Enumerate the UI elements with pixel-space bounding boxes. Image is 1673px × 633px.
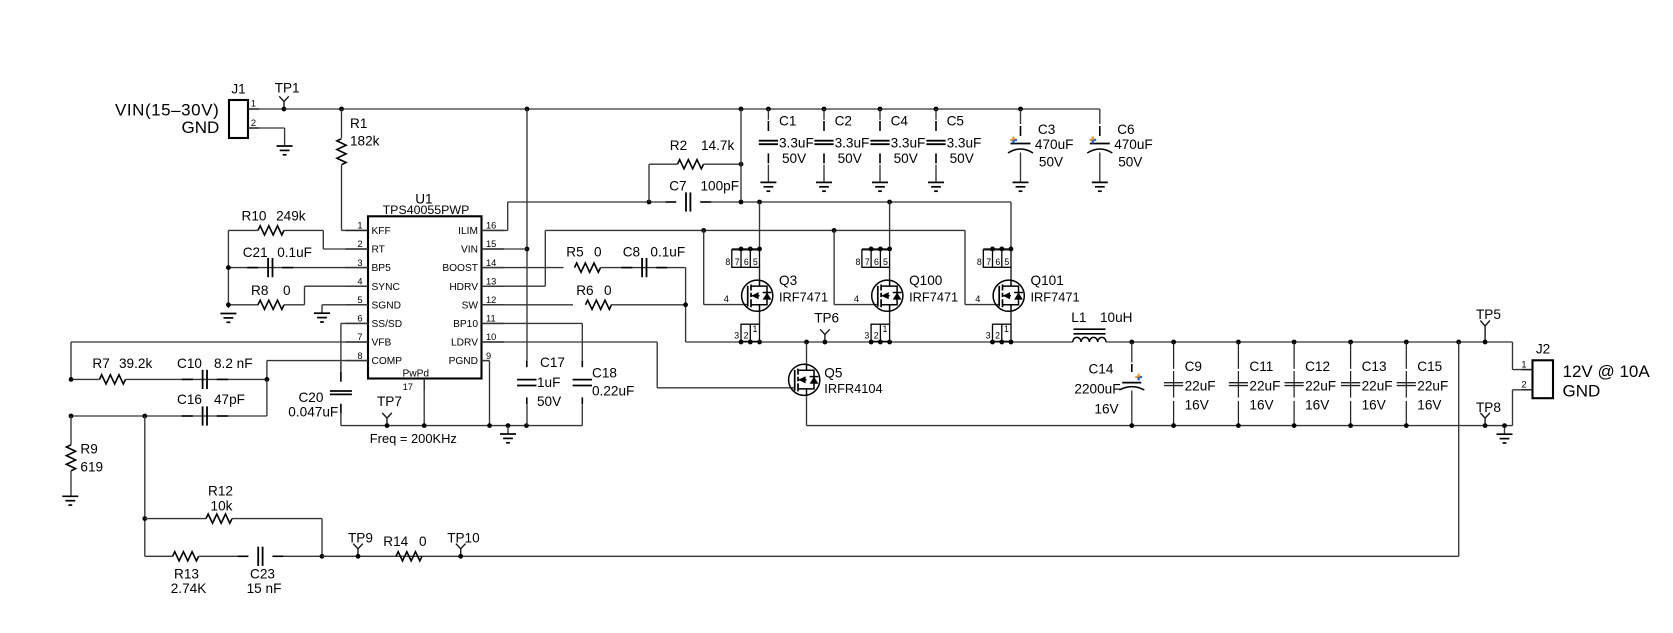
- svg-text:3.3uF: 3.3uF: [779, 136, 814, 151]
- node C7-R2 left: [647, 200, 652, 205]
- svg-text:5: 5: [1004, 257, 1009, 267]
- svg-text:KFF: KFF: [372, 226, 391, 237]
- svg-text:IRF7471: IRF7471: [909, 289, 958, 304]
- svg-text:1: 1: [883, 324, 888, 334]
- svg-text:RT: RT: [372, 245, 385, 256]
- svg-text:50V: 50V: [950, 151, 974, 166]
- svg-text:3.3uF: 3.3uF: [891, 136, 926, 151]
- wire Q3 source down: [759, 312, 761, 325]
- svg-text:C8: C8: [623, 245, 640, 260]
- svg-text:R8: R8: [251, 283, 268, 298]
- svg-text:C17: C17: [540, 355, 565, 370]
- svg-text:BP5: BP5: [372, 263, 392, 274]
- transistor Q5 IRFR4104: [789, 364, 883, 396]
- svg-text:C5: C5: [947, 114, 964, 129]
- wire Q101 drain into symbol: [1010, 267, 1012, 280]
- node VOUT-C12: [1292, 340, 1297, 345]
- svg-text:10uH: 10uH: [1100, 310, 1133, 325]
- svg-text:10: 10: [486, 332, 496, 342]
- svg-text:1uF: 1uF: [537, 375, 560, 390]
- transistor Q100 IRF7471: [854, 273, 958, 311]
- svg-text:1: 1: [251, 99, 256, 109]
- svg-text:C6: C6: [1117, 122, 1134, 137]
- svg-text:17: 17: [403, 382, 413, 392]
- wire drain Q100: [889, 202, 891, 249]
- test point TP9: [348, 530, 373, 558]
- wire COMP pin8: [267, 361, 368, 380]
- node VIN pin15: [482, 247, 530, 252]
- node C11 gnd: [1236, 423, 1241, 428]
- wire SW node: [686, 341, 1073, 343]
- svg-text:16V: 16V: [1417, 398, 1441, 413]
- svg-text:7: 7: [986, 257, 991, 267]
- svg-text:R6: R6: [576, 283, 593, 298]
- svg-text:22uF: 22uF: [1249, 379, 1280, 394]
- svg-text:TP6: TP6: [814, 311, 839, 326]
- svg-text:14: 14: [486, 258, 496, 268]
- wire rail to R2/C7: [740, 109, 742, 202]
- resistor R12: [145, 483, 322, 556]
- node C7-rail vertical: [739, 200, 744, 205]
- svg-text:8: 8: [725, 257, 730, 267]
- svg-text:C20: C20: [298, 390, 323, 405]
- port label GND (input): [182, 118, 220, 137]
- node gate Q100: [832, 228, 837, 233]
- svg-text:R10: R10: [242, 208, 267, 223]
- ground C6: [1092, 182, 1108, 191]
- svg-text:13: 13: [486, 276, 496, 286]
- node VOUT feedback tap: [1456, 340, 1461, 345]
- port label VIN(15-30V): [115, 101, 219, 120]
- wire PGND pin9 down: [482, 361, 490, 426]
- svg-text:100pF: 100pF: [701, 178, 740, 193]
- svg-text:0: 0: [419, 534, 427, 549]
- capacitor C14 (polarized): [1074, 342, 1144, 426]
- svg-text:C1: C1: [779, 114, 796, 129]
- svg-text:Q3: Q3: [779, 273, 797, 288]
- svg-text:0: 0: [594, 245, 602, 260]
- node C13 gnd: [1348, 423, 1353, 428]
- svg-text:182k: 182k: [350, 133, 380, 148]
- capacitor C10: [126, 356, 267, 389]
- svg-text:PGND: PGND: [449, 356, 478, 367]
- resistor R1: [337, 109, 380, 230]
- node gnd stem: [506, 423, 511, 428]
- svg-text:1: 1: [1521, 360, 1526, 370]
- inductor L1: [1071, 310, 1132, 342]
- port label GND (output): [1563, 382, 1601, 401]
- node C16 left: [69, 414, 74, 419]
- svg-text:7: 7: [865, 257, 870, 267]
- node gate Q3: [701, 228, 706, 233]
- svg-text:2: 2: [357, 239, 362, 249]
- svg-text:2: 2: [874, 331, 879, 341]
- svg-text:C16: C16: [177, 392, 202, 407]
- svg-text:SYNC: SYNC: [372, 282, 400, 293]
- resistor R7: [71, 356, 152, 384]
- node R8 left: [226, 302, 231, 307]
- svg-text:TP5: TP5: [1476, 307, 1501, 322]
- svg-text:2.74K: 2.74K: [171, 581, 207, 596]
- wire L1 to output: [1106, 341, 1513, 343]
- capacitor C9: [1164, 342, 1216, 426]
- svg-text:16V: 16V: [1362, 398, 1386, 413]
- svg-text:C3: C3: [1038, 122, 1055, 137]
- capacitor C7: [665, 178, 739, 211]
- svg-text:C2: C2: [835, 114, 852, 129]
- node VOUT-C9: [1171, 340, 1176, 345]
- svg-text:50V: 50V: [782, 151, 806, 166]
- wire gate Q3 drop: [704, 230, 748, 304]
- svg-text:R14: R14: [383, 534, 408, 549]
- node Q5 drain: [804, 340, 809, 345]
- node VFB-R7: [69, 377, 74, 382]
- svg-text:5: 5: [883, 257, 888, 267]
- label Freq = 200KHz: [370, 431, 457, 446]
- wire drain Q3: [759, 202, 761, 249]
- node VOUT-C13: [1348, 340, 1353, 345]
- node VOUT-C14: [1129, 340, 1134, 345]
- wire PwPd pin17: [423, 379, 425, 426]
- wire SS/SD pin6 down: [341, 323, 368, 371]
- node rail-C4: [878, 107, 883, 112]
- wire C7 line right: [711, 201, 1011, 203]
- svg-text:C7: C7: [669, 178, 686, 193]
- svg-text:470uF: 470uF: [1035, 137, 1074, 152]
- svg-text:TP10: TP10: [447, 530, 480, 545]
- svg-text:2: 2: [251, 118, 256, 128]
- wire gate drive line: [545, 229, 965, 231]
- wire SGND pin5: [322, 305, 368, 313]
- svg-text:R12: R12: [208, 483, 233, 498]
- resistor R10: [228, 208, 368, 249]
- svg-text:7: 7: [735, 257, 740, 267]
- svg-text:1: 1: [357, 221, 362, 231]
- svg-text:22uF: 22uF: [1417, 379, 1448, 394]
- svg-text:TP7: TP7: [377, 394, 402, 409]
- wire gate Q101 drop: [965, 230, 1000, 304]
- svg-text:C23: C23: [250, 566, 275, 581]
- svg-text:IRF7471: IRF7471: [1031, 289, 1080, 304]
- svg-text:Q5: Q5: [824, 365, 842, 380]
- node PwPd-gnd: [422, 423, 427, 428]
- svg-text:R13: R13: [174, 566, 199, 581]
- svg-text:8.2 nF: 8.2 nF: [214, 356, 253, 371]
- svg-text:SGND: SGND: [372, 300, 401, 311]
- ground controller: [500, 426, 516, 443]
- svg-text:J1: J1: [231, 82, 245, 97]
- svg-text:PwPd: PwPd: [402, 369, 429, 380]
- capacitor C23: [237, 547, 322, 596]
- svg-text:2200uF: 2200uF: [1074, 381, 1120, 396]
- node VOUT-C11: [1236, 340, 1241, 345]
- svg-text:6: 6: [874, 257, 879, 267]
- svg-text:11: 11: [486, 314, 496, 324]
- svg-text:3.3uF: 3.3uF: [947, 136, 982, 151]
- capacitor C17: [517, 355, 565, 409]
- node C12 gnd: [1292, 423, 1297, 428]
- resistor R9: [66, 416, 103, 496]
- wire VOUT to J2 pin1: [1513, 342, 1533, 370]
- svg-text:8: 8: [977, 257, 982, 267]
- svg-text:IRFR4104: IRFR4104: [824, 381, 882, 396]
- svg-text:J2: J2: [1536, 341, 1550, 356]
- wire gnd to J2 pin2: [1513, 390, 1533, 426]
- capacitor C16: [71, 379, 267, 425]
- svg-text:4: 4: [854, 294, 859, 304]
- ground at J2: [1497, 423, 1513, 443]
- pins 321 Q100: [864, 324, 892, 344]
- node R2 right: [739, 162, 744, 167]
- svg-text:0: 0: [283, 283, 291, 298]
- svg-text:3: 3: [864, 331, 869, 341]
- node rail-R2 vertical: [739, 107, 744, 112]
- svg-text:14.7k: 14.7k: [701, 138, 734, 153]
- svg-text:22uF: 22uF: [1305, 379, 1336, 394]
- svg-text:4: 4: [357, 276, 362, 286]
- wire sense line: [322, 555, 1459, 557]
- svg-text:8: 8: [357, 351, 362, 361]
- svg-text:12: 12: [486, 295, 496, 305]
- capacitor C21: [228, 245, 368, 277]
- pins 8765 Q101: [977, 247, 1014, 268]
- wire Q100 source down: [889, 312, 891, 325]
- ground below R8 bus: [220, 314, 236, 323]
- svg-text:5: 5: [753, 257, 758, 267]
- capacitor C3 (polarized): [1008, 109, 1073, 182]
- svg-text:C4: C4: [891, 114, 909, 129]
- svg-text:2: 2: [744, 331, 749, 341]
- capacitor C20: [288, 363, 352, 426]
- ground SGND: [314, 313, 330, 322]
- svg-text:ILIM: ILIM: [458, 226, 478, 237]
- svg-text:COMP: COMP: [372, 356, 403, 367]
- svg-text:8: 8: [855, 257, 860, 267]
- node R6-SW: [683, 302, 688, 307]
- svg-text:2: 2: [995, 331, 1000, 341]
- capacitor C1: [759, 109, 814, 182]
- capacitor C11: [1229, 342, 1281, 426]
- node rail-C1: [766, 107, 771, 112]
- node TP8: [1483, 423, 1488, 428]
- wire J1 pin2: [248, 128, 285, 146]
- ground at J1 pin2: [277, 146, 293, 155]
- svg-text:R9: R9: [80, 442, 97, 457]
- svg-text:C18: C18: [592, 365, 617, 380]
- wire Q3 drain into symbol: [759, 267, 761, 280]
- svg-text:39.2k: 39.2k: [119, 356, 152, 371]
- node VOUT-C15: [1404, 340, 1409, 345]
- svg-text:15: 15: [486, 239, 496, 249]
- capacitor C15: [1397, 342, 1449, 426]
- svg-text:IRF7471: IRF7471: [779, 289, 828, 304]
- wire drain Q101: [1010, 202, 1012, 249]
- op-amp U1 TPS40055PWP controller: [346, 191, 505, 392]
- wire Q5 source: [806, 396, 808, 426]
- capacitor C13: [1341, 342, 1393, 426]
- wire feedback vertical: [144, 416, 146, 556]
- node C16-feedback: [142, 414, 147, 419]
- capacitor C6 (polarized): [1087, 109, 1152, 182]
- ground C2: [816, 182, 832, 191]
- wire R2 left vertical: [648, 164, 650, 202]
- resistor R2: [649, 138, 741, 169]
- svg-text:VIN(15–30V): VIN(15–30V): [115, 101, 219, 120]
- svg-text:4: 4: [724, 294, 729, 304]
- svg-text:1: 1: [1004, 324, 1009, 334]
- svg-text:0.047uF: 0.047uF: [288, 404, 338, 419]
- wire power gnd line: [807, 425, 1513, 427]
- wire VIN top rail: [284, 108, 1100, 110]
- wire LDRV pin10: [482, 342, 795, 388]
- svg-text:5: 5: [357, 295, 362, 305]
- svg-text:16V: 16V: [1094, 402, 1118, 417]
- node C14 gnd: [1129, 423, 1134, 428]
- svg-text:C15: C15: [1417, 359, 1442, 374]
- pins 8765 Q100: [855, 247, 892, 268]
- svg-text:3: 3: [357, 258, 362, 268]
- wire HDRV pin13: [482, 230, 546, 286]
- svg-text:TP1: TP1: [275, 81, 300, 96]
- svg-text:16: 16: [486, 221, 496, 231]
- node R12-C23: [320, 554, 325, 559]
- svg-text:VFB: VFB: [372, 338, 392, 349]
- svg-text:HDRV: HDRV: [449, 282, 478, 293]
- wire Q100 drain into symbol: [889, 267, 891, 280]
- svg-text:6: 6: [744, 257, 749, 267]
- svg-text:R5: R5: [566, 245, 583, 260]
- transistor Q3 IRF7471: [724, 273, 828, 311]
- connector J1: [229, 82, 256, 139]
- svg-text:3: 3: [986, 331, 991, 341]
- svg-text:L1: L1: [1071, 310, 1086, 325]
- wire J1 pin1 to rail: [248, 108, 284, 110]
- svg-text:619: 619: [80, 460, 103, 475]
- svg-text:6: 6: [357, 314, 362, 324]
- svg-text:10k: 10k: [211, 499, 233, 514]
- svg-text:C9: C9: [1185, 359, 1202, 374]
- wire C7 line left: [508, 201, 665, 203]
- wire Q5 drain: [806, 342, 808, 364]
- ground C5: [928, 182, 944, 191]
- node rail-C5: [934, 107, 939, 112]
- svg-text:Freq = 200KHz: Freq = 200KHz: [370, 431, 457, 446]
- port label 12V @ 10A: [1563, 362, 1651, 381]
- test point TP1: [275, 81, 300, 112]
- resistor R13: [145, 552, 238, 596]
- test point TP6: [814, 311, 839, 345]
- pins 321 Q3: [734, 324, 762, 344]
- capacitor C8: [601, 245, 686, 278]
- svg-text:C14: C14: [1088, 361, 1113, 376]
- svg-text:Q101: Q101: [1031, 273, 1064, 288]
- svg-text:12V @ 10A: 12V @ 10A: [1563, 362, 1651, 381]
- ground C4: [872, 182, 888, 191]
- wire gate Q100 drop: [834, 230, 878, 304]
- svg-text:TP9: TP9: [348, 530, 373, 545]
- node rail-C3: [1018, 107, 1023, 112]
- pins 321 Q101: [986, 324, 1014, 344]
- wire R10-C21-R8 left bus: [227, 230, 229, 308]
- ground C1: [760, 182, 776, 191]
- svg-text:SS/SD: SS/SD: [372, 319, 403, 330]
- svg-text:50V: 50V: [1118, 154, 1142, 169]
- svg-text:C11: C11: [1249, 359, 1273, 374]
- test point TP7: [377, 394, 402, 428]
- capacitor C12: [1285, 342, 1337, 426]
- svg-text:50V: 50V: [1039, 154, 1063, 169]
- svg-text:7: 7: [357, 332, 362, 342]
- svg-text:R7: R7: [92, 356, 109, 371]
- ground C3: [1013, 182, 1029, 191]
- test point TP10: [447, 530, 480, 558]
- resistor R5: [482, 245, 603, 273]
- wire feedback down: [1458, 342, 1460, 556]
- node C9 gnd: [1171, 423, 1176, 428]
- svg-text:3.3uF: 3.3uF: [835, 136, 870, 151]
- svg-text:C21: C21: [243, 245, 268, 260]
- svg-text:22uF: 22uF: [1362, 379, 1393, 394]
- svg-text:16V: 16V: [1249, 398, 1273, 413]
- svg-text:50V: 50V: [537, 394, 561, 409]
- svg-text:GND: GND: [182, 118, 220, 137]
- node rail-C2: [822, 107, 827, 112]
- wire VFB pin7: [71, 342, 368, 379]
- svg-text:22uF: 22uF: [1185, 379, 1216, 394]
- svg-text:R1: R1: [350, 116, 367, 131]
- node C15 gnd: [1404, 423, 1409, 428]
- svg-text:VIN: VIN: [461, 245, 478, 256]
- svg-text:0.1uF: 0.1uF: [277, 245, 312, 260]
- svg-text:3: 3: [734, 331, 739, 341]
- svg-text:R2: R2: [670, 138, 687, 153]
- wire BP10 pin11 down: [482, 323, 583, 425]
- svg-text:C12: C12: [1305, 359, 1330, 374]
- wire boost-SW vertical: [685, 268, 687, 342]
- svg-text:Q100: Q100: [909, 273, 943, 288]
- svg-text:LDRV: LDRV: [451, 338, 478, 349]
- capacitor C4: [870, 109, 925, 182]
- svg-text:6: 6: [995, 257, 1000, 267]
- svg-text:SW: SW: [462, 300, 479, 311]
- svg-text:0.22uF: 0.22uF: [592, 384, 634, 399]
- node rail-VIN vertical: [525, 107, 530, 112]
- svg-text:TP8: TP8: [1476, 400, 1501, 415]
- svg-text:4: 4: [975, 294, 980, 304]
- svg-text:15 nF: 15 nF: [247, 581, 282, 596]
- svg-text:C13: C13: [1362, 359, 1387, 374]
- node COMP-C10-C16: [265, 377, 270, 382]
- capacitor C18: [573, 360, 635, 404]
- transistor Q101 IRF7471: [975, 273, 1079, 311]
- svg-text:47pF: 47pF: [214, 392, 245, 407]
- node drain Q100 top: [887, 200, 892, 205]
- resistor R8: [228, 283, 368, 310]
- svg-text:16V: 16V: [1185, 398, 1209, 413]
- svg-text:BOOST: BOOST: [442, 263, 478, 274]
- resistor R6: [482, 283, 686, 309]
- svg-text:TPS40055PWP: TPS40055PWP: [383, 203, 470, 217]
- svg-text:16V: 16V: [1305, 398, 1329, 413]
- svg-text:50V: 50V: [894, 151, 918, 166]
- node rail-R1: [339, 107, 344, 112]
- wire Q101 source down: [1010, 312, 1012, 325]
- wire ILIM pin16: [482, 202, 508, 230]
- capacitor C2: [814, 109, 869, 182]
- svg-text:GND: GND: [1563, 382, 1601, 401]
- node drain Q3 top: [757, 200, 762, 205]
- pins 8765 Q3: [725, 247, 762, 268]
